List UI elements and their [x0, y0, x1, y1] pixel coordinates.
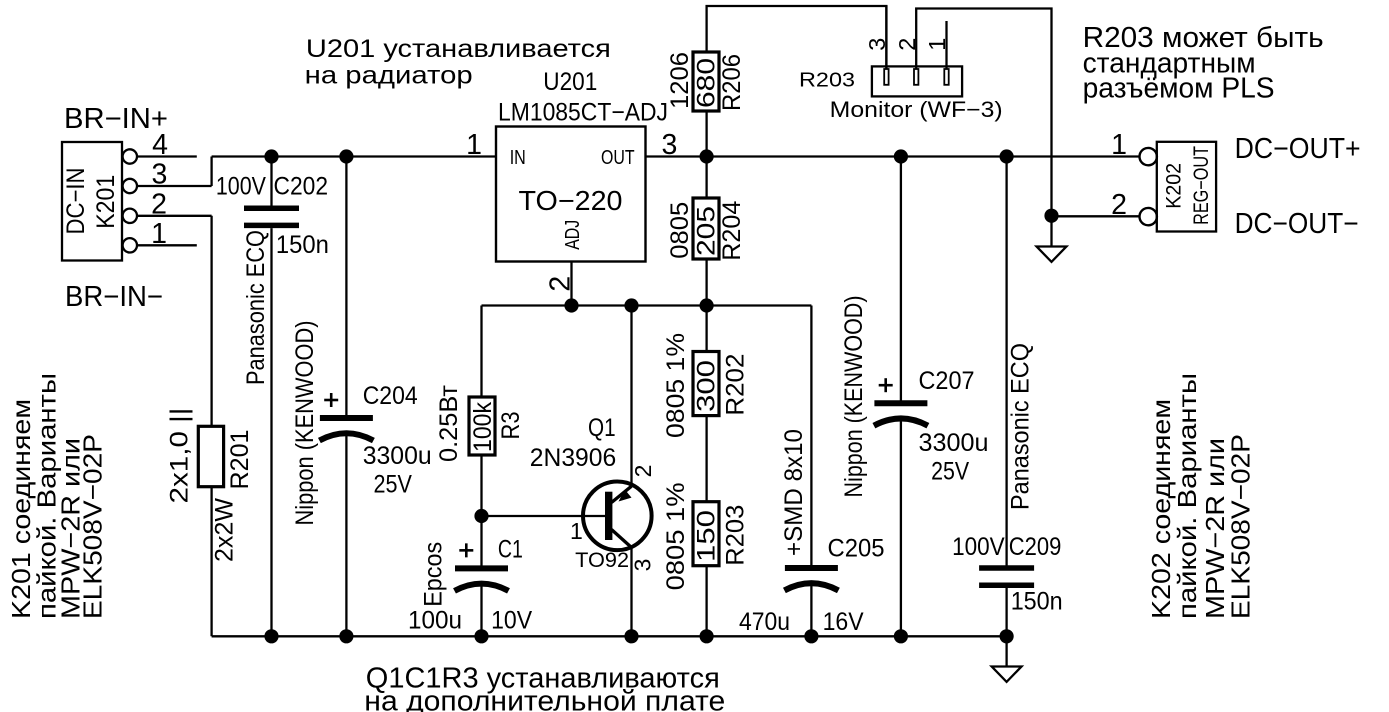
- junction C207 top: [894, 149, 908, 163]
- Q1 pin 2 number: [630, 465, 656, 478]
- note R203 PLS line 3: [1083, 73, 1275, 105]
- svg-text:Panasonic ECQ: Panasonic ECQ: [242, 230, 270, 385]
- junction C204 top: [339, 149, 353, 163]
- svg-text:16V: 16V: [823, 608, 864, 636]
- svg-text:Panasonic ECQ: Panasonic ECQ: [1007, 343, 1035, 510]
- K201 pin 4: [123, 129, 197, 164]
- svg-text:R203: R203: [722, 505, 750, 566]
- svg-text:LM1085CT−ADJ: LM1085CT−ADJ: [498, 99, 668, 127]
- U201 pin 3 number: [661, 129, 677, 161]
- junction OUT node: [700, 149, 714, 163]
- svg-text:150n: 150n: [276, 231, 329, 259]
- junction U201 pin2: [564, 298, 578, 312]
- note Q1C1R3 line 2: [364, 686, 725, 712]
- net label DC-OUT+: [1235, 133, 1361, 165]
- note K202 solder line 1: [1146, 399, 1176, 619]
- svg-text:100k: 100k: [469, 402, 497, 452]
- wire R206 bottom to node: [705, 111, 707, 157]
- junction C202 top: [264, 149, 278, 163]
- svg-text:680: 680: [693, 58, 721, 108]
- K202 pin 1: [1111, 129, 1157, 165]
- junction C204 bottom: [339, 629, 353, 643]
- capacitor C205: [739, 306, 885, 637]
- svg-text:100V: 100V: [952, 533, 1005, 561]
- wire ADJ rail: [482, 304, 812, 306]
- note K201 solder line 1: [6, 399, 36, 619]
- svg-text:TO92: TO92: [575, 548, 629, 572]
- svg-text:300: 300: [693, 360, 721, 412]
- svg-text:DC−OUT+: DC−OUT+: [1235, 133, 1361, 165]
- resistor R201: [166, 408, 255, 563]
- svg-text:1206: 1206: [666, 52, 694, 109]
- note Q1C1R3 line 1: [366, 662, 720, 694]
- svg-text:K201: K201: [92, 175, 120, 229]
- svg-text:0805 1%: 0805 1%: [662, 333, 690, 438]
- svg-text:R201: R201: [226, 430, 254, 490]
- Q1 pin 3 number: [630, 559, 656, 572]
- svg-text:на дополнительной плате: на дополнительной плате: [364, 686, 725, 712]
- wire R203 to bottom rail: [705, 566, 707, 637]
- K201 pin 2: [123, 188, 212, 223]
- svg-text:BR−IN+: BR−IN+: [64, 103, 168, 135]
- net label BR-IN-: [65, 281, 163, 313]
- svg-text:2: 2: [630, 465, 656, 478]
- Monitor pin 2: [894, 9, 1052, 216]
- svg-text:C202: C202: [274, 173, 329, 201]
- note K201 solder line 2: [32, 373, 62, 619]
- transistor Q1 2N3906: [482, 306, 652, 637]
- svg-text:R203: R203: [799, 69, 855, 92]
- svg-text:U201 устанавливается: U201 устанавливается: [306, 35, 611, 63]
- svg-text:2x2W: 2x2W: [211, 498, 239, 562]
- svg-text:2N3906: 2N3906: [530, 444, 616, 472]
- svg-text:0.25Вт: 0.25Вт: [435, 384, 463, 462]
- svg-text:2x1,0 ||: 2x1,0 ||: [166, 408, 194, 504]
- resistor R203: [662, 482, 750, 590]
- Q1 footprint TO92: [575, 548, 629, 572]
- Monitor pin 1: [924, 21, 950, 85]
- svg-text:C1: C1: [498, 535, 523, 563]
- svg-text:разъёмом PLS: разъёмом PLS: [1083, 73, 1275, 105]
- svg-text:DC−IN: DC−IN: [62, 168, 90, 235]
- svg-text:2: 2: [151, 188, 167, 220]
- junction C205 bottom: [804, 629, 818, 643]
- svg-text:2: 2: [1111, 189, 1127, 221]
- K201 pin 3: [123, 159, 212, 194]
- Q1 value 2N3906: [530, 444, 616, 472]
- junction C209 bottom: [1000, 629, 1014, 643]
- net label BR-IN+: [64, 103, 168, 135]
- op-amp U201 LM1085CT-ADJ body: [496, 127, 646, 262]
- resistor R202: [662, 333, 750, 438]
- junction C1 bottom: [474, 629, 488, 643]
- junction R203 bottom: [700, 629, 714, 643]
- note K202 solder line 3: [1200, 438, 1230, 619]
- svg-text:U201: U201: [543, 68, 597, 96]
- svg-text:ELK508V−02P: ELK508V−02P: [78, 434, 108, 619]
- resistor R3: [435, 384, 525, 462]
- wire K201 pin2 down to R201: [210, 216, 212, 426]
- svg-text:пайкой. Варианты: пайкой. Варианты: [1172, 373, 1202, 619]
- svg-text:1: 1: [466, 129, 482, 161]
- svg-text:100V: 100V: [216, 173, 266, 201]
- note K202 solder line 4: [1226, 434, 1256, 619]
- svg-text:Nippon (KENWOOD): Nippon (KENWOOD): [840, 296, 868, 498]
- junction R3 C1 base: [474, 509, 488, 523]
- Q1 reference: [588, 414, 616, 442]
- wire top rail right segment: [646, 155, 1140, 157]
- svg-text:10V: 10V: [491, 607, 532, 635]
- svg-text:OUT: OUT: [601, 147, 635, 169]
- net label DC-OUT-: [1235, 208, 1359, 240]
- wire DC-OUT- node to K202 pin2: [1052, 215, 1140, 217]
- K201 pin 1: [123, 218, 197, 253]
- svg-text:1: 1: [924, 38, 950, 51]
- connector R203 Monitor (WF-3) body: [799, 66, 1003, 122]
- note R203 PLS line 1: [1083, 22, 1324, 54]
- svg-text:на радиатор: на радиатор: [305, 62, 473, 90]
- svg-text:C207: C207: [919, 367, 975, 395]
- wire R3 to base node: [480, 455, 482, 516]
- svg-text:Q1: Q1: [588, 414, 616, 442]
- svg-text:0805: 0805: [666, 202, 694, 259]
- capacitor C204: [291, 157, 432, 637]
- U201 reference: [543, 68, 597, 96]
- ground bottom: [992, 667, 1022, 682]
- note U201 heatsink line 2: [305, 62, 473, 90]
- svg-text:3300u: 3300u: [919, 429, 989, 457]
- wire ADJ rail to R202: [705, 306, 707, 352]
- junction C202 bottom: [264, 629, 278, 643]
- note K201 solder line 4: [78, 434, 108, 619]
- svg-text:0805 1%: 0805 1%: [662, 482, 690, 590]
- U201 value: [498, 99, 668, 127]
- Q1 pin 1 number: [570, 518, 583, 544]
- wire ADJ rail corner down to R3: [480, 306, 482, 398]
- svg-text:K202: K202: [1163, 163, 1186, 209]
- K202 pin 2: [1111, 189, 1157, 225]
- svg-text:R206: R206: [718, 54, 746, 111]
- svg-text:IN: IN: [510, 147, 526, 169]
- wire R202 to R203: [705, 416, 707, 502]
- junction C209 top: [1000, 149, 1014, 163]
- svg-text:3: 3: [864, 38, 890, 51]
- wire OUT node to R204: [705, 157, 707, 199]
- wire ground stub upper: [1050, 216, 1052, 247]
- capacitor C202: [216, 157, 329, 637]
- svg-text:3: 3: [151, 159, 167, 191]
- wire bottom rail: [212, 635, 1007, 637]
- svg-text:TO−220: TO−220: [519, 185, 623, 216]
- wire U201 pin2 to ADJ rail: [570, 262, 572, 306]
- capacitor C1: [408, 516, 532, 636]
- svg-text:3300u: 3300u: [363, 442, 432, 470]
- svg-text:ADJ: ADJ: [562, 220, 584, 250]
- junction DC-OUT- node: [1044, 209, 1058, 223]
- junction C207 bottom: [894, 629, 908, 643]
- junction R204 ADJ: [700, 298, 714, 312]
- U201 pin 2 number: [544, 276, 576, 292]
- note R203 PLS line 2: [1083, 47, 1256, 79]
- svg-text:DC−OUT−: DC−OUT−: [1235, 208, 1359, 240]
- wire R206 top loop: [707, 6, 887, 69]
- ground upper: [1037, 247, 1067, 262]
- svg-text:Monitor (WF−3): Monitor (WF−3): [830, 97, 1003, 122]
- svg-text:BR−IN−: BR−IN−: [65, 281, 163, 313]
- U201 pin 1 number: [466, 129, 482, 161]
- Monitor pin 3: [864, 6, 890, 85]
- svg-text:Epcos: Epcos: [420, 542, 448, 607]
- svg-text:C205: C205: [828, 534, 885, 562]
- note U201 heatsink line 1: [306, 35, 611, 63]
- svg-text:C209: C209: [1009, 533, 1062, 561]
- svg-text:+SMD 8x10: +SMD 8x10: [780, 429, 808, 556]
- wire C209 node to ground: [1005, 636, 1007, 666]
- svg-text:1: 1: [151, 218, 167, 250]
- wire R201 to bottom rail: [210, 487, 212, 637]
- svg-text:150: 150: [693, 510, 721, 562]
- capacitor C207: [840, 157, 989, 637]
- svg-text:1: 1: [1111, 129, 1127, 161]
- svg-text:REG−OUT: REG−OUT: [1190, 146, 1213, 225]
- svg-text:2: 2: [894, 38, 920, 51]
- note K202 solder line 2: [1172, 373, 1202, 619]
- wire top rail left segment: [212, 155, 496, 157]
- svg-text:R202: R202: [722, 354, 750, 416]
- capacitor C209: [952, 157, 1063, 637]
- svg-text:1: 1: [570, 518, 583, 544]
- svg-text:R3: R3: [497, 412, 525, 440]
- junction Q1 emitter on ADJ rail: [624, 298, 638, 312]
- resistor R204: [666, 198, 746, 261]
- wire K201 pin3 to top rail: [210, 157, 212, 187]
- connector K201 (DC-IN) body: [62, 142, 122, 261]
- junction Q1 collector bottom: [624, 629, 638, 643]
- svg-text:25V: 25V: [374, 471, 413, 499]
- svg-text:3: 3: [630, 559, 656, 572]
- svg-text:R204: R204: [718, 201, 746, 261]
- note K201 solder line 3: [56, 438, 86, 619]
- svg-text:25V: 25V: [931, 458, 969, 486]
- svg-text:150n: 150n: [1011, 588, 1063, 616]
- svg-text:470u: 470u: [739, 608, 790, 636]
- svg-text:100u: 100u: [408, 607, 462, 635]
- wire R204 to ADJ rail: [705, 259, 707, 306]
- resistor R206: [666, 52, 746, 111]
- connector K202 (REG-OUT) body: [1157, 142, 1216, 232]
- svg-text:C204: C204: [363, 382, 418, 410]
- svg-text:Nippon (KENWOOD): Nippon (KENWOOD): [291, 321, 319, 526]
- svg-text:ELK508V−02P: ELK508V−02P: [1226, 434, 1256, 619]
- svg-text:205: 205: [693, 206, 721, 256]
